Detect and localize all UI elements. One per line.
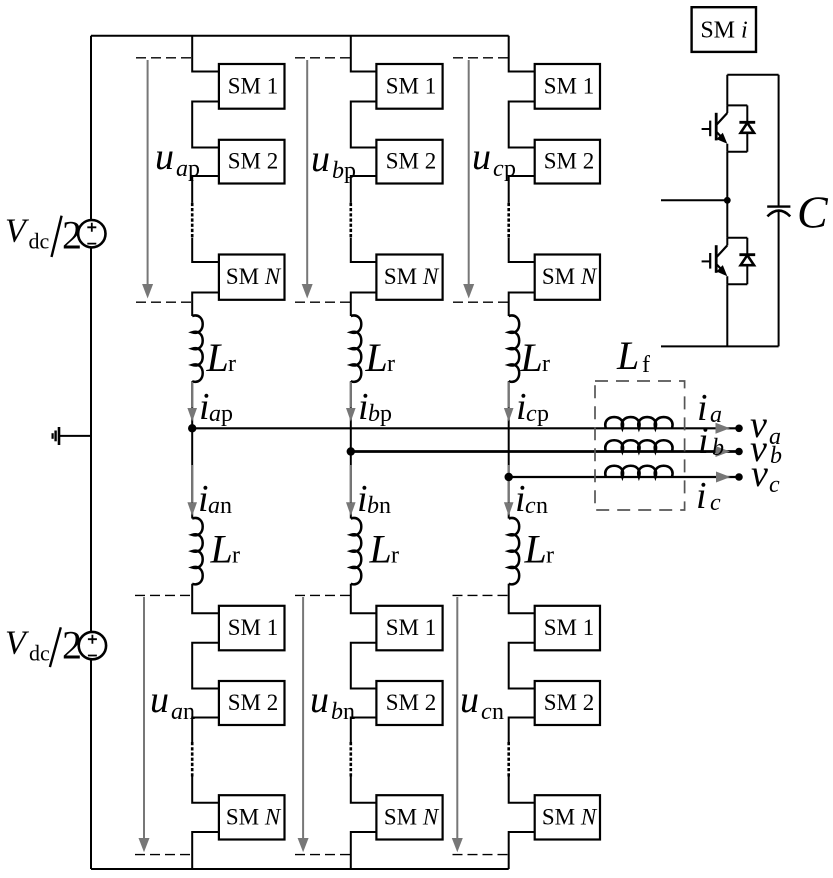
svg-text:n: n — [343, 699, 355, 725]
svg-text:r: r — [546, 543, 554, 569]
svg-text:p: p — [344, 158, 356, 184]
svg-text:SM 2: SM 2 — [228, 149, 279, 174]
svg-text:SM 1: SM 1 — [228, 615, 279, 640]
svg-text:i: i — [199, 386, 210, 428]
svg-text:dc: dc — [29, 641, 50, 666]
svg-text:p: p — [537, 401, 549, 427]
svg-text:C: C — [797, 187, 829, 238]
svg-text:SM 2: SM 2 — [544, 149, 595, 174]
svg-text:c: c — [493, 156, 504, 182]
svg-text:SM N: SM N — [542, 804, 598, 829]
svg-text:a: a — [710, 402, 722, 428]
svg-text:c: c — [481, 699, 492, 725]
svg-text:c: c — [525, 493, 536, 519]
svg-text:c: c — [769, 472, 780, 498]
svg-text:v: v — [751, 453, 768, 495]
svg-text:L: L — [616, 333, 639, 378]
svg-text:i: i — [358, 386, 369, 428]
svg-text:u: u — [310, 679, 329, 721]
svg-text:SM 2: SM 2 — [386, 149, 437, 174]
svg-text:n: n — [183, 699, 195, 725]
svg-text:SM 1: SM 1 — [386, 615, 437, 640]
svg-text:n: n — [220, 493, 232, 519]
svg-text:V: V — [5, 213, 30, 250]
svg-text:n: n — [492, 699, 504, 725]
svg-text:r: r — [232, 543, 240, 569]
svg-text:i: i — [516, 386, 527, 428]
svg-text:L: L — [369, 527, 392, 572]
svg-text:r: r — [542, 351, 550, 377]
svg-text:SM N: SM N — [226, 804, 282, 829]
svg-text:L: L — [206, 335, 229, 380]
svg-text:a: a — [208, 493, 220, 519]
svg-text:r: r — [391, 543, 399, 569]
svg-text:SM 2: SM 2 — [386, 690, 437, 715]
svg-text:b: b — [367, 493, 379, 519]
svg-text:SM N: SM N — [384, 264, 440, 289]
svg-text:n: n — [536, 493, 548, 519]
svg-text:b: b — [368, 401, 380, 427]
svg-text:SM 1: SM 1 — [228, 73, 279, 98]
svg-text:c: c — [710, 490, 721, 516]
svg-text:u: u — [155, 136, 174, 178]
svg-text:SM N: SM N — [226, 264, 282, 289]
svg-text:SM 1: SM 1 — [544, 73, 595, 98]
svg-text:i: i — [515, 478, 526, 520]
svg-text:p: p — [380, 401, 392, 427]
svg-text:dc: dc — [29, 229, 50, 254]
svg-text:SM 1: SM 1 — [386, 73, 437, 98]
svg-text:n: n — [379, 493, 391, 519]
svg-text:SM 1: SM 1 — [544, 615, 595, 640]
svg-text:u: u — [460, 679, 479, 721]
svg-text:r: r — [228, 351, 236, 377]
svg-text:L: L — [365, 335, 388, 380]
svg-text:SM 2: SM 2 — [544, 690, 595, 715]
svg-text:b: b — [712, 435, 724, 461]
svg-text:u: u — [311, 138, 330, 180]
svg-text:r: r — [387, 351, 395, 377]
svg-text:i: i — [198, 478, 209, 520]
svg-text:i: i — [698, 420, 709, 462]
svg-text:i: i — [696, 475, 707, 517]
svg-text:f: f — [642, 352, 650, 378]
svg-text:SM N: SM N — [542, 264, 598, 289]
svg-text:2: 2 — [62, 213, 82, 258]
svg-text:SM 2: SM 2 — [228, 690, 279, 715]
svg-text:p: p — [188, 156, 200, 182]
svg-text:a: a — [209, 401, 221, 427]
svg-text:SM i: SM i — [700, 17, 747, 43]
svg-text:L: L — [524, 527, 547, 572]
svg-text:b: b — [332, 158, 344, 184]
svg-text:p: p — [221, 401, 233, 427]
svg-text:c: c — [526, 401, 537, 427]
svg-text:u: u — [472, 136, 491, 178]
svg-text:a: a — [171, 699, 183, 725]
svg-text:u: u — [150, 679, 169, 721]
svg-text:2: 2 — [62, 623, 82, 668]
svg-text:i: i — [357, 478, 368, 520]
svg-text:L: L — [210, 527, 233, 572]
svg-text:b: b — [331, 699, 343, 725]
svg-text:p: p — [504, 156, 516, 182]
svg-text:V: V — [5, 625, 30, 662]
svg-text:a: a — [176, 156, 188, 182]
svg-text:b: b — [770, 443, 782, 469]
svg-text:SM N: SM N — [384, 804, 440, 829]
svg-text:L: L — [520, 335, 543, 380]
